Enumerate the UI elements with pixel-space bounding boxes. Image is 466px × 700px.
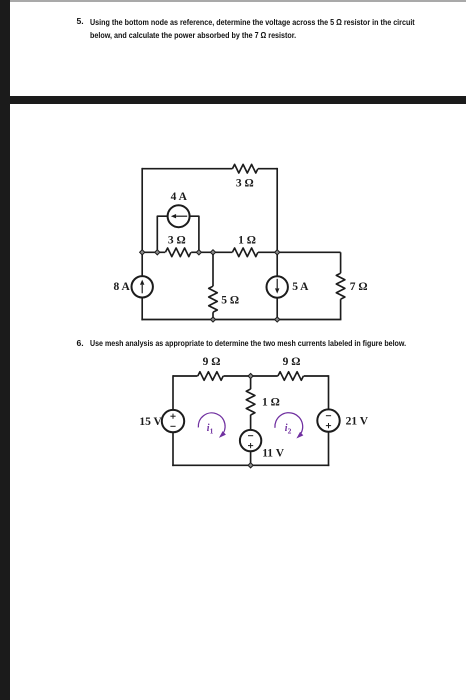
svg-text:1 Ω: 1 Ω <box>238 235 256 247</box>
svg-text:1 Ω: 1 Ω <box>262 397 280 409</box>
svg-text:i1: i1 <box>207 423 214 435</box>
svg-text:21 V: 21 V <box>346 416 369 428</box>
svg-text:4 A: 4 A <box>171 191 188 203</box>
svg-text:9 Ω: 9 Ω <box>203 356 221 368</box>
svg-text:7 Ω: 7 Ω <box>350 281 368 293</box>
svg-text:i2: i2 <box>285 423 292 435</box>
svg-text:15 V: 15 V <box>139 416 162 428</box>
svg-text:3 Ω: 3 Ω <box>168 235 186 247</box>
svg-text:5 A: 5 A <box>292 281 309 293</box>
svg-text:5 Ω: 5 Ω <box>221 295 239 307</box>
svg-text:3 Ω: 3 Ω <box>236 178 254 190</box>
svg-text:11 V: 11 V <box>262 447 285 459</box>
svg-text:9 Ω: 9 Ω <box>283 356 301 368</box>
svg-text:8 A: 8 A <box>114 281 131 293</box>
